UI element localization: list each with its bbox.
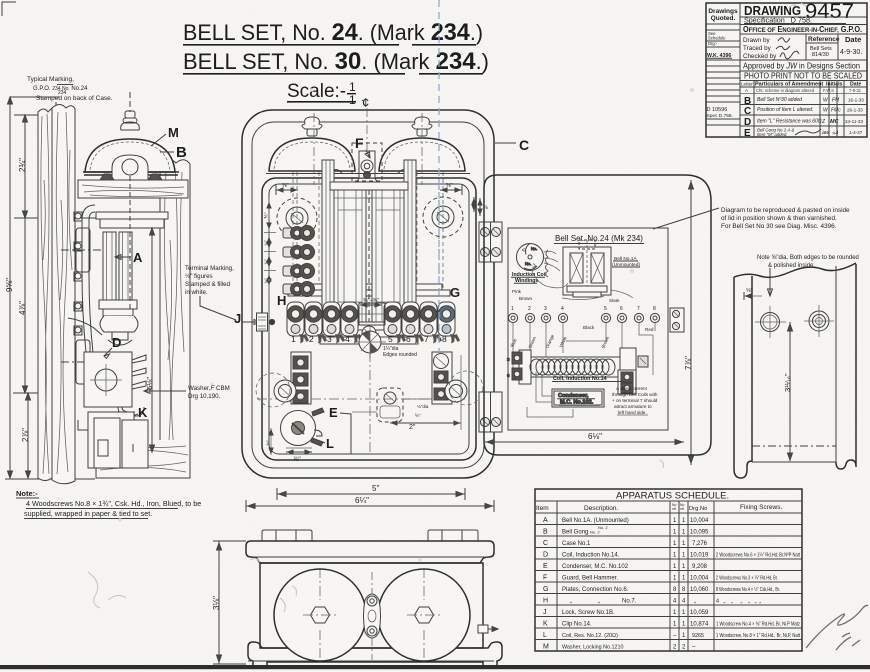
left gong circle [274, 569, 366, 661]
svg-text:No. 2: No. 2 [598, 525, 608, 530]
svg-text:„: „ [570, 599, 572, 605]
left terminal strip dims [264, 198, 276, 322]
svg-text:in white.: in white. [185, 289, 208, 296]
svg-text:5: 5 [604, 306, 607, 312]
svg-text:Schedule: Schedule [708, 36, 726, 41]
svg-text:Diagram to be reproduced & pas: Diagram to be reproduced & pasted on ins… [721, 207, 850, 214]
svg-text:Checked by: Checked by [743, 53, 777, 60]
bell mechanism frame [82, 205, 168, 366]
amendment vertical rules [753, 81, 755, 138]
svg-text:Condenser, M.C. No.102: Condenser, M.C. No.102 [562, 564, 629, 570]
svg-text:2": 2" [409, 424, 416, 431]
svg-text:26-1-33: 26-1-33 [847, 108, 863, 113]
bottom flange [248, 642, 502, 668]
centre axis lines lower [257, 398, 467, 400]
svg-text:¾": ¾" [264, 278, 269, 284]
dim 5" [277, 488, 465, 500]
svg-text:2: 2 [309, 334, 314, 344]
outer case [242, 110, 494, 478]
svg-text:Item: Item [536, 505, 549, 512]
condenser box lower [78, 412, 148, 468]
svg-text:Drawn by: Drawn by [743, 37, 770, 44]
svg-text:A: A [543, 517, 548, 524]
svg-text:⅛" figures: ⅛" figures [185, 273, 213, 280]
scale note [287, 80, 364, 107]
small dim 5/8 [744, 292, 762, 300]
svg-text:Washer, Locking No.1210: Washer, Locking No.1210 [562, 645, 624, 651]
lower-left block column [291, 352, 311, 404]
svg-text:through Bell Coils with: through Bell Coils with [612, 392, 658, 397]
svg-text:Clip No.14.: Clip No.14. [562, 622, 592, 628]
svg-text:E: E [543, 563, 548, 570]
svg-text:Case No.1: Case No.1 [562, 541, 591, 547]
svg-text:10,019: 10,019 [690, 553, 709, 559]
svg-text:Stamped & filled: Stamped & filled [185, 281, 231, 288]
svg-text:9457: 9457 [805, 0, 854, 23]
vertical dim bottom left [269, 428, 273, 455]
svg-text:J: J [543, 609, 547, 616]
svg-text:4: 4 [345, 334, 350, 344]
lock screw plate J target [257, 313, 275, 331]
svg-text:H: H [277, 293, 286, 308]
svg-text:7,276: 7,276 [692, 541, 708, 547]
svg-text:APPARATUS SCHEDULE.: APPARATUS SCHEDULE. [616, 491, 729, 502]
svg-text:10,060: 10,060 [690, 587, 709, 593]
right gong circle [378, 569, 470, 661]
svg-text:& polished inside.: & polished inside. [768, 263, 815, 269]
svg-text:Description.: Description. [584, 505, 619, 512]
svg-text:„: „ [694, 599, 696, 605]
left finial [302, 117, 322, 136]
svg-text:MC: MC [830, 119, 840, 125]
svg-text:6: 6 [406, 334, 411, 344]
small blocks left of coil [507, 352, 648, 394]
svg-text:Cht. scheme in diagram altered: Cht. scheme in diagram altered [756, 88, 815, 93]
svg-text:7: 7 [637, 306, 640, 312]
small fixing right edge [478, 625, 498, 633]
svg-text:Drg.No: Drg.No [689, 506, 707, 512]
wall plugs left [61, 228, 120, 384]
svg-text:¢: ¢ [362, 95, 369, 110]
svg-text:3: 3 [544, 306, 547, 312]
svg-text:⅝": ⅝" [746, 288, 753, 294]
gong base feet [330, 170, 410, 174]
svg-text:C: C [543, 540, 548, 547]
title line 2 [183, 48, 489, 75]
svg-text:2: 2 [528, 306, 531, 312]
left hole [755, 306, 786, 338]
left gong dome (front) [269, 138, 355, 171]
svg-text:1: 1 [349, 93, 356, 107]
svg-text:Quoted.: Quoted. [711, 15, 736, 22]
lower right terminal block [432, 352, 452, 404]
terminals row 1-4 [287, 302, 358, 336]
svg-text:1 Woodscrew No.4 × ⅜" Rd.Hd, B: 1 Woodscrew No.4 × ⅜" Rd.Hd, Br, Ni.P Ma… [716, 622, 800, 628]
right hole (bushed) [804, 305, 834, 337]
svg-text:G: G [543, 586, 548, 593]
svg-text:Position of Item L altered.: Position of Item L altered. [757, 107, 814, 113]
svg-text:Bell Set. No.24 (Mk 234): Bell Set. No.24 (Mk 234) [555, 234, 643, 243]
svg-text:4 Woodscrews No.8 × 1¾", Csk.: 4 Woodscrews No.8 × 1¾", Csk. Hd., Iron,… [26, 499, 201, 508]
case wall inner line [252, 122, 484, 468]
terminal plate tails [299, 334, 460, 344]
centre line (blue dashed) [438, 0, 440, 352]
svg-text:2¾": 2¾" [18, 158, 27, 172]
svg-text:3⅛": 3⅛" [212, 596, 221, 610]
title block [706, 0, 867, 139]
svg-text:Coil, Res. No.12. (20Ω): Coil, Res. No.12. (20Ω) [562, 633, 618, 639]
svg-text:Slate: Slate [609, 298, 620, 303]
svg-text:3: 3 [327, 334, 332, 344]
svg-text:Traced by: Traced by [743, 45, 772, 52]
svg-text:814/30: 814/30 [812, 52, 829, 58]
svg-text:⅜": ⅜" [266, 440, 271, 446]
svg-text:10,059: 10,059 [690, 610, 709, 616]
svg-text:2 Woodscrews No.3 × ¼" Rd.Hd,: 2 Woodscrews No.3 × ¼" Rd.Hd, Br. [716, 576, 778, 582]
svg-text:4: 4 [561, 306, 564, 312]
svg-text:B: B [543, 529, 548, 536]
svg-text:K: K [543, 621, 548, 628]
armature bar above terminals [288, 284, 450, 296]
column rules [556, 501, 558, 651]
terminal numbers [291, 334, 447, 344]
svg-text:B: B [176, 144, 187, 161]
svg-text:Typical Marking,: Typical Marking, [27, 76, 74, 83]
diagram label plate [508, 228, 668, 430]
svg-text:C: C [519, 137, 529, 153]
induction coil drawing [519, 348, 636, 384]
svg-text:10,004: 10,004 [690, 518, 709, 524]
svg-text:8: 8 [442, 334, 447, 344]
svg-text:1: 1 [349, 80, 356, 94]
coil resistance L (circle) [281, 408, 325, 446]
svg-text:A direct current: A direct current [616, 386, 648, 391]
centre post F [355, 151, 379, 198]
mounting plank (horizontal) [78, 174, 188, 198]
centre circle (gong spanner hole) [354, 326, 386, 358]
svg-text:Lock, Screw No.1B.: Lock, Screw No.1B. [562, 610, 615, 616]
back board (wood) [38, 105, 75, 484]
corner mark top left [2, 2, 16, 16]
svg-text:9⅝": 9⅝" [5, 278, 14, 292]
svg-text:G: G [450, 285, 460, 300]
svg-text:OFFICE OF ENGINEER-IN-CHIEF, G: OFFICE OF ENGINEER-IN-CHIEF, G.P.O. [743, 25, 862, 34]
svg-text:A: A [133, 250, 143, 265]
svg-text:Spec D.758.: Spec D.758. [707, 113, 733, 119]
wiring lines [513, 323, 655, 375]
dim 7-7/8 door [689, 180, 694, 465]
gong finial M [121, 92, 140, 130]
direct current note [612, 386, 658, 415]
svg-text:Condenser,: Condenser, [558, 393, 589, 399]
svg-text:7: 7 [424, 334, 429, 344]
svg-text:Approved by JW in Designs Sec: Approved by JW in Designs Section [743, 62, 860, 71]
svg-text:PHOTO PRINT NOT TO BE SCAL: PHOTO PRINT NOT TO BE SCALED [744, 72, 862, 81]
svg-text:6⅛": 6⅛" [588, 432, 602, 441]
case side wall (wood, right) [160, 159, 190, 474]
gong studs right [413, 172, 443, 292]
svg-text:Scale:-: Scale:- [287, 81, 346, 102]
svg-text:8: 8 [653, 306, 656, 312]
small dim between t4-t5 [360, 303, 382, 307]
outline [734, 263, 856, 478]
svg-text:1-4-37: 1-4-37 [849, 130, 863, 135]
dim 3-1/8" vertical [213, 541, 246, 664]
svg-text:supplied, wrapped in paper & t: supplied, wrapped in paper & tied to set… [24, 509, 152, 518]
svg-text:10,095: 10,095 [690, 530, 709, 536]
svg-text:⅜": ⅜" [446, 183, 453, 189]
bell gong (side) B [83, 139, 179, 175]
dashed mount rect centre [352, 143, 382, 181]
svg-text:K: K [138, 405, 148, 420]
svg-text:+ on terminal 7 should: + on terminal 7 should [612, 398, 658, 403]
right gong dome (front) [379, 138, 465, 171]
svg-text:No.: No. [525, 261, 531, 266]
gong stem dashed [129, 176, 131, 310]
gong bracket [112, 155, 148, 183]
svg-text:Black: Black [583, 325, 595, 330]
clip K [118, 407, 144, 416]
svg-text:2⅞": 2⅞" [21, 428, 30, 442]
svg-text:2 Woodscrews No.6 × 1¼" Rd.Hd,: 2 Woodscrews No.6 × 1¼" Rd.Hd, Br.NºP Na… [716, 553, 800, 559]
svg-text:Reference: Reference [808, 36, 840, 43]
svg-text:¾": ¾" [264, 259, 269, 265]
dim 6-1/4" [246, 500, 494, 512]
svg-text:off: off [672, 507, 676, 511]
svg-text:Fixing Screws.: Fixing Screws. [740, 504, 782, 511]
svg-text:Bell Set Nº30 added: Bell Set Nº30 added [757, 97, 802, 103]
armature block centre [359, 303, 385, 325]
svg-text:1: 1 [291, 334, 296, 344]
gong axis centre lines [313, 113, 315, 185]
left terminal column (4 screw terminals) [283, 226, 315, 297]
svg-text:16-1-33: 16-1-33 [848, 98, 864, 103]
svg-text:4-9-30.: 4-9-30. [840, 49, 862, 56]
label terminal numbers [511, 306, 656, 312]
condenser dashed outline centre [352, 388, 455, 422]
svg-text:4⅞": 4⅞" [18, 301, 27, 315]
dim 6-1/8 door [485, 440, 684, 445]
svg-text:Brown: Brown [519, 296, 532, 301]
svg-text:left hand side.: left hand side. [618, 410, 647, 415]
condenser label box [527, 372, 604, 417]
svg-text:Coil, Induction No.14.: Coil, Induction No.14. [562, 553, 620, 559]
faint pencil smudges [88, 3, 806, 612]
svg-text:E: E [329, 405, 338, 420]
terminal screws column on back board [74, 212, 82, 335]
hinge blocks far right of door [670, 308, 684, 332]
left big screw boss [256, 373, 296, 407]
title block left column [739, 3, 741, 137]
induction coil D box [84, 352, 146, 407]
top flange [246, 541, 494, 563]
svg-text:⅞": ⅞" [293, 456, 301, 463]
dim 2-7/8 lower [5, 393, 95, 479]
svg-text:D: D [112, 335, 121, 350]
svg-text:attract armature to: attract armature to [614, 404, 652, 409]
svg-text:4 „ „ „ „ „ „: 4 „ „ „ „ „ „ [716, 599, 761, 605]
svg-text:⅜": ⅜" [282, 183, 289, 189]
svg-text:E: E [744, 128, 751, 139]
svg-text:Item "M" added.: Item "M" added. [757, 132, 788, 137]
svg-text:Note:-: Note:- [16, 489, 38, 498]
svg-text:7-8-31: 7-8-31 [849, 88, 862, 93]
coil A (vertical cylinders) [99, 232, 137, 316]
bell (label drawing) [563, 240, 611, 297]
svg-text:Stamped on back of Case.: Stamped on back of Case. [36, 95, 113, 102]
svg-text:24-11-33: 24-11-33 [845, 119, 863, 124]
right gong boss (dashed circle) [423, 197, 463, 237]
svg-text:Pink: Pink [512, 289, 522, 294]
vertical dim 3-11/16 [788, 322, 793, 461]
signature [806, 605, 868, 650]
hinge plates right of case (lower) [479, 392, 502, 432]
svg-text:FMc: FMc [831, 108, 841, 114]
svg-text:A: A [745, 88, 748, 93]
left gong boss (dashed circle) [277, 198, 317, 238]
right hex nut [407, 568, 441, 662]
svg-text:Edges rounded: Edges rounded [383, 352, 417, 358]
sheet bottom border [0, 665, 870, 669]
svg-text:„: „ [598, 599, 600, 605]
right boss dims [478, 198, 482, 216]
dim 2" lower [390, 355, 461, 430]
svg-text:¾": ¾" [264, 240, 269, 246]
svg-text:L: L [543, 632, 547, 639]
leader arrow down to hole [768, 268, 773, 296]
gong studs left [293, 172, 323, 292]
svg-text:FM: FM [832, 98, 840, 104]
svg-text:Terminal Marking,: Terminal Marking, [185, 265, 234, 272]
inner panel [262, 178, 476, 460]
svg-text:BELL SET, No. 30. (Mark 234.: BELL SET, No. 30. (Mark 234.) [183, 48, 489, 75]
svg-text:1: 1 [511, 306, 514, 312]
svg-text:⅕′′: ⅕′′ [415, 413, 421, 418]
svg-text:M: M [543, 644, 549, 651]
left hex nut [303, 568, 337, 662]
svg-text:6: 6 [620, 306, 623, 312]
svg-text:No.: No. [531, 246, 537, 251]
centre clamp [364, 572, 381, 660]
svg-text:No.7.: No.7. [622, 599, 637, 605]
svg-text:Item "L" Resistance was 60Ω.: Item "L" Resistance was 60Ω. [757, 119, 823, 125]
svg-text:D 10596: D 10596 [707, 107, 728, 113]
dim 7/8 bottom left [286, 448, 312, 454]
svg-text:Drg 10,190.: Drg 10,190. [188, 393, 221, 400]
svg-text:10,004: 10,004 [690, 576, 709, 582]
svg-text:BELL SET, No. 24. (Mark 234.: BELL SET, No. 24. (Mark 234.) [183, 19, 483, 46]
row rules [535, 525, 802, 640]
right big screw boss [445, 371, 483, 405]
svg-text:Letter: Letter [741, 82, 753, 87]
svg-text:Plates, Connection No.6.: Plates, Connection No.6. [562, 587, 629, 593]
svg-text:Red: Red [645, 327, 654, 332]
dashed base line [752, 445, 836, 447]
top tabs [262, 530, 478, 541]
svg-text:7⅞": 7⅞" [684, 356, 693, 370]
armature below coil [100, 316, 138, 345]
wires from coil to bell [532, 250, 633, 300]
label terminals row [508, 313, 659, 322]
hinge plates right of case (upper) [479, 222, 502, 262]
overall height dim 9-5/8 [8, 97, 61, 478]
svg-text:D: D [543, 552, 548, 559]
case bottom board [96, 440, 190, 478]
right finial [412, 117, 432, 136]
svg-text:Bell No.1A. (Unmounted): Bell No.1A. (Unmounted) [562, 518, 629, 524]
svg-text:Guard, Bell Hammer.: Guard, Bell Hammer. [562, 576, 618, 582]
svg-text:off: off [680, 507, 684, 511]
svg-text:of lid in position shown & the: of lid in position shown & then varnishe… [721, 215, 837, 222]
svg-text:1 Woodscrew, No.8 × 1" Rd.Hd.,: 1 Woodscrew, No.8 × 1" Rd.Hd., Br, Ni.P,… [716, 633, 800, 639]
svg-text:⅖″: ⅖″ [264, 212, 269, 218]
svg-text:10,874: 10,874 [690, 622, 709, 628]
svg-text:Drg:-: Drg:- [708, 41, 718, 46]
svg-text:J: J [234, 311, 241, 326]
latch arm [68, 318, 102, 335]
rows [543, 517, 800, 651]
svg-text:For Bell Set No 30 see Diag. M: For Bell Set No 30 see Diag. Misc. 4396. [721, 223, 837, 230]
door outline [484, 175, 711, 455]
paste note [721, 207, 850, 230]
svg-text:5: 5 [388, 334, 393, 344]
svg-text:Washer,F CBM: Washer,F CBM [188, 385, 230, 392]
body [260, 563, 483, 648]
svg-text:M: M [168, 125, 179, 140]
svg-text:8 Woodscrews No.4 × ½" Csk.Hd.: 8 Woodscrews No.4 × ½" Csk.Hd., Br. [716, 586, 780, 593]
svg-text:⅛"dia: ⅛"dia [417, 404, 429, 409]
svg-text:Date: Date [845, 35, 861, 44]
svg-text:L: L [326, 436, 334, 451]
svg-text:6¼": 6¼" [355, 496, 369, 505]
svg-text:Drawings: Drawings [708, 8, 738, 15]
title line 1 [183, 19, 483, 46]
inner height dim 6-1/8 [150, 228, 155, 452]
dim 4-7/8 mid [13, 218, 70, 393]
terminals row 5-8 [384, 302, 455, 336]
svg-text:9265: 9265 [692, 633, 704, 639]
svg-text:5": 5" [372, 484, 379, 493]
svg-text:Note ⅝"dia. Both edges to be r: Note ⅝"dia. Both edges to be rounded [757, 255, 859, 261]
small dims top left [276, 185, 298, 195]
svg-text:3¹¹⁄₁₆": 3¹¹⁄₁₆" [783, 373, 792, 392]
winding diagram circle [517, 244, 544, 271]
leader to paste note [653, 208, 719, 229]
svg-text:9,208: 9,208 [692, 564, 708, 570]
dim 2-3/4 top [14, 115, 100, 218]
svg-text:M.C. No.102.: M.C. No.102. [560, 400, 594, 406]
svg-text:H: H [543, 598, 548, 605]
bell movement frame [320, 160, 418, 344]
svg-text:F: F [543, 575, 547, 582]
